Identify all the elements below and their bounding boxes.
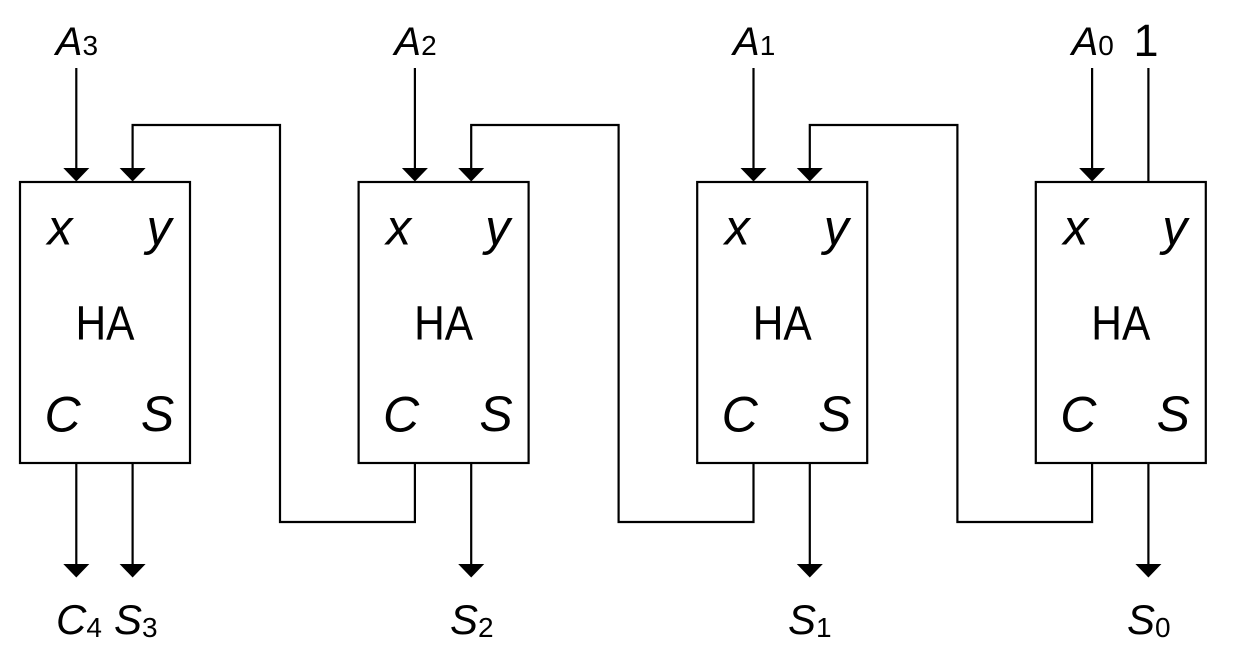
svg-text:y: y [821,200,852,256]
arrowhead A1 into U2.x [741,168,767,182]
svg-text:HA: HA [76,297,136,351]
svg-text:C4: C4 [56,596,102,643]
svg-text:x: x [723,200,752,256]
svg-text:A0: A0 [1070,20,1114,64]
svg-text:HA: HA [1091,297,1151,351]
wire input A2 to U3.x [414,68,416,169]
half-adder U3 (bit 2) box [359,182,529,463]
wire input A1 to U2.x [752,68,754,169]
svg-text:C: C [722,387,759,443]
wire output U3.S to S2 [470,464,472,565]
wire carry U1.C to U2.y [810,125,1092,522]
half-adder U1 (bit 0) box [1036,182,1206,463]
half-adder U4 (bit 3) box [20,182,190,463]
svg-text:C: C [44,387,81,443]
svg-text:HA: HA [753,297,813,351]
arrowhead output C4 [63,564,89,578]
svg-text:C: C [383,387,420,443]
wire output U1.S to S0 [1147,464,1149,565]
svg-text:A1: A1 [731,20,775,64]
arrowhead output S3 [120,564,146,578]
wire output U4.C to C4 [75,464,77,565]
arrowhead carry into U4.y [120,168,146,182]
svg-text:HA: HA [414,297,474,351]
svg-text:S: S [818,386,851,442]
arrowhead A2 into U3.x [402,168,428,182]
wire carry U2.C to U3.y [471,125,753,522]
wire output U4.S to S3 [132,464,134,565]
half-adder U2 (bit 1) box [697,182,867,463]
svg-text:x: x [384,200,413,256]
wire output U2.S to S1 [809,464,811,565]
wire constant 1 to U1.y [1147,68,1149,182]
wire input A3 to U4.x [75,68,77,169]
svg-text:1: 1 [1133,15,1158,66]
arrowhead carry into U3.y [458,168,484,182]
svg-text:y: y [482,200,513,256]
wire carry U3.C to U4.y [133,125,415,522]
arrowhead A3 into U4.x [63,168,89,182]
svg-text:S0: S0 [1127,596,1171,643]
svg-text:y: y [1159,200,1190,256]
svg-text:S1: S1 [788,596,832,643]
svg-text:x: x [1061,200,1090,256]
svg-text:A3: A3 [54,20,98,64]
arrowhead carry into U2.y [797,168,823,182]
svg-text:S: S [141,386,174,442]
svg-text:S: S [1157,386,1190,442]
svg-text:S2: S2 [450,596,494,643]
svg-text:S3: S3 [114,596,158,643]
arrowhead output S2 [458,564,484,578]
arrowhead output S0 [1135,564,1161,578]
svg-text:S: S [479,386,512,442]
arrowhead output S1 [797,564,823,578]
arrowhead A0 into U1.x [1079,168,1105,182]
svg-text:A2: A2 [392,20,436,64]
svg-text:y: y [144,200,175,256]
svg-text:x: x [46,200,75,256]
svg-text:C: C [1060,387,1097,443]
wire input A0 to U1.x [1091,68,1093,169]
